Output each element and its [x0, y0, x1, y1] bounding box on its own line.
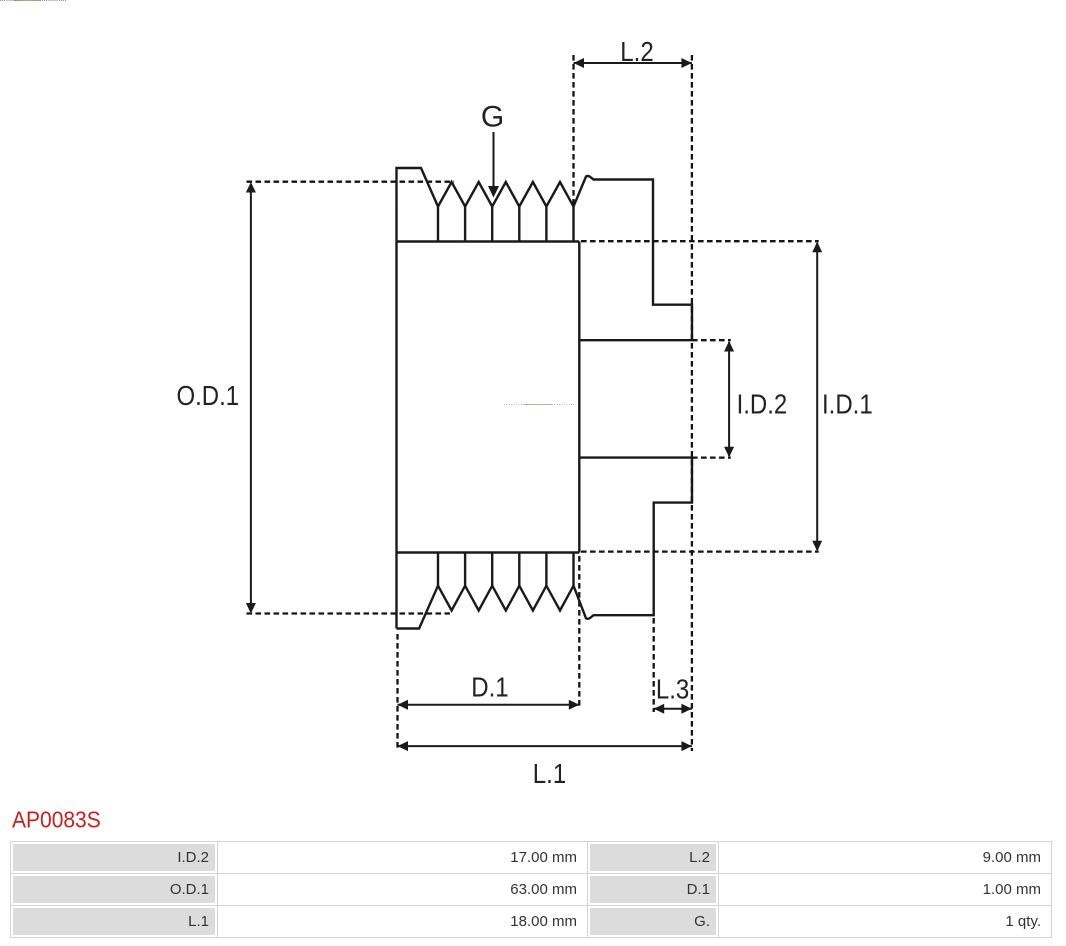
svg-text:L.3: L.3: [656, 675, 689, 705]
extension dashed I.D.1 top: [581, 240, 819, 242]
svg-text:L.2: L.2: [620, 38, 653, 68]
pulley outline: [397, 168, 693, 629]
extension dashed I.D.1 bottom: [581, 550, 819, 552]
rim base line bottom: [397, 551, 580, 553]
faint watermark line center: [504, 404, 524, 405]
hub right edge: [578, 242, 580, 553]
svg-text:G: G: [481, 101, 504, 134]
svg-text:L.1: L.1: [533, 760, 566, 790]
dim L.3: [654, 708, 692, 710]
groove stubs top: [438, 207, 574, 242]
extension dashed L.2 left: [572, 55, 574, 205]
data table: [10, 841, 1052, 938]
groove stubs bottom: [438, 553, 574, 586]
leader G: [493, 132, 495, 190]
extension dashed right long: [691, 55, 693, 751]
svg-text:I.D.1: I.D.1: [822, 390, 873, 420]
extension dashed D.1: [578, 556, 580, 708]
dim L.1: [398, 745, 692, 747]
dim L.2: [574, 62, 692, 64]
bore line bottom: [579, 456, 692, 458]
dim I.D.2: [728, 342, 730, 456]
extension dashed O.D.1 bottom: [247, 612, 451, 614]
svg-text:I.D.2: I.D.2: [737, 390, 788, 420]
extension dashed I.D.2 bottom: [692, 456, 731, 458]
product code title: [12, 808, 101, 834]
dim D.1: [398, 704, 580, 706]
bore line top: [579, 339, 692, 341]
cropped logo sliver top-left: [0, 0, 14, 1]
extension dashed O.D.1 top: [247, 181, 455, 183]
pulley outline lower right: [397, 458, 693, 629]
extension dashed I.D.2 top: [692, 339, 731, 341]
svg-text:O.D.1: O.D.1: [176, 382, 239, 412]
extension dashed L.1 left: [396, 634, 398, 751]
rim base line top: [397, 240, 580, 242]
extension dashed L.3 left: [653, 618, 655, 712]
dim O.D.1: [250, 184, 252, 612]
svg-text:D.1: D.1: [471, 673, 508, 703]
dim I.D.1: [816, 243, 818, 550]
